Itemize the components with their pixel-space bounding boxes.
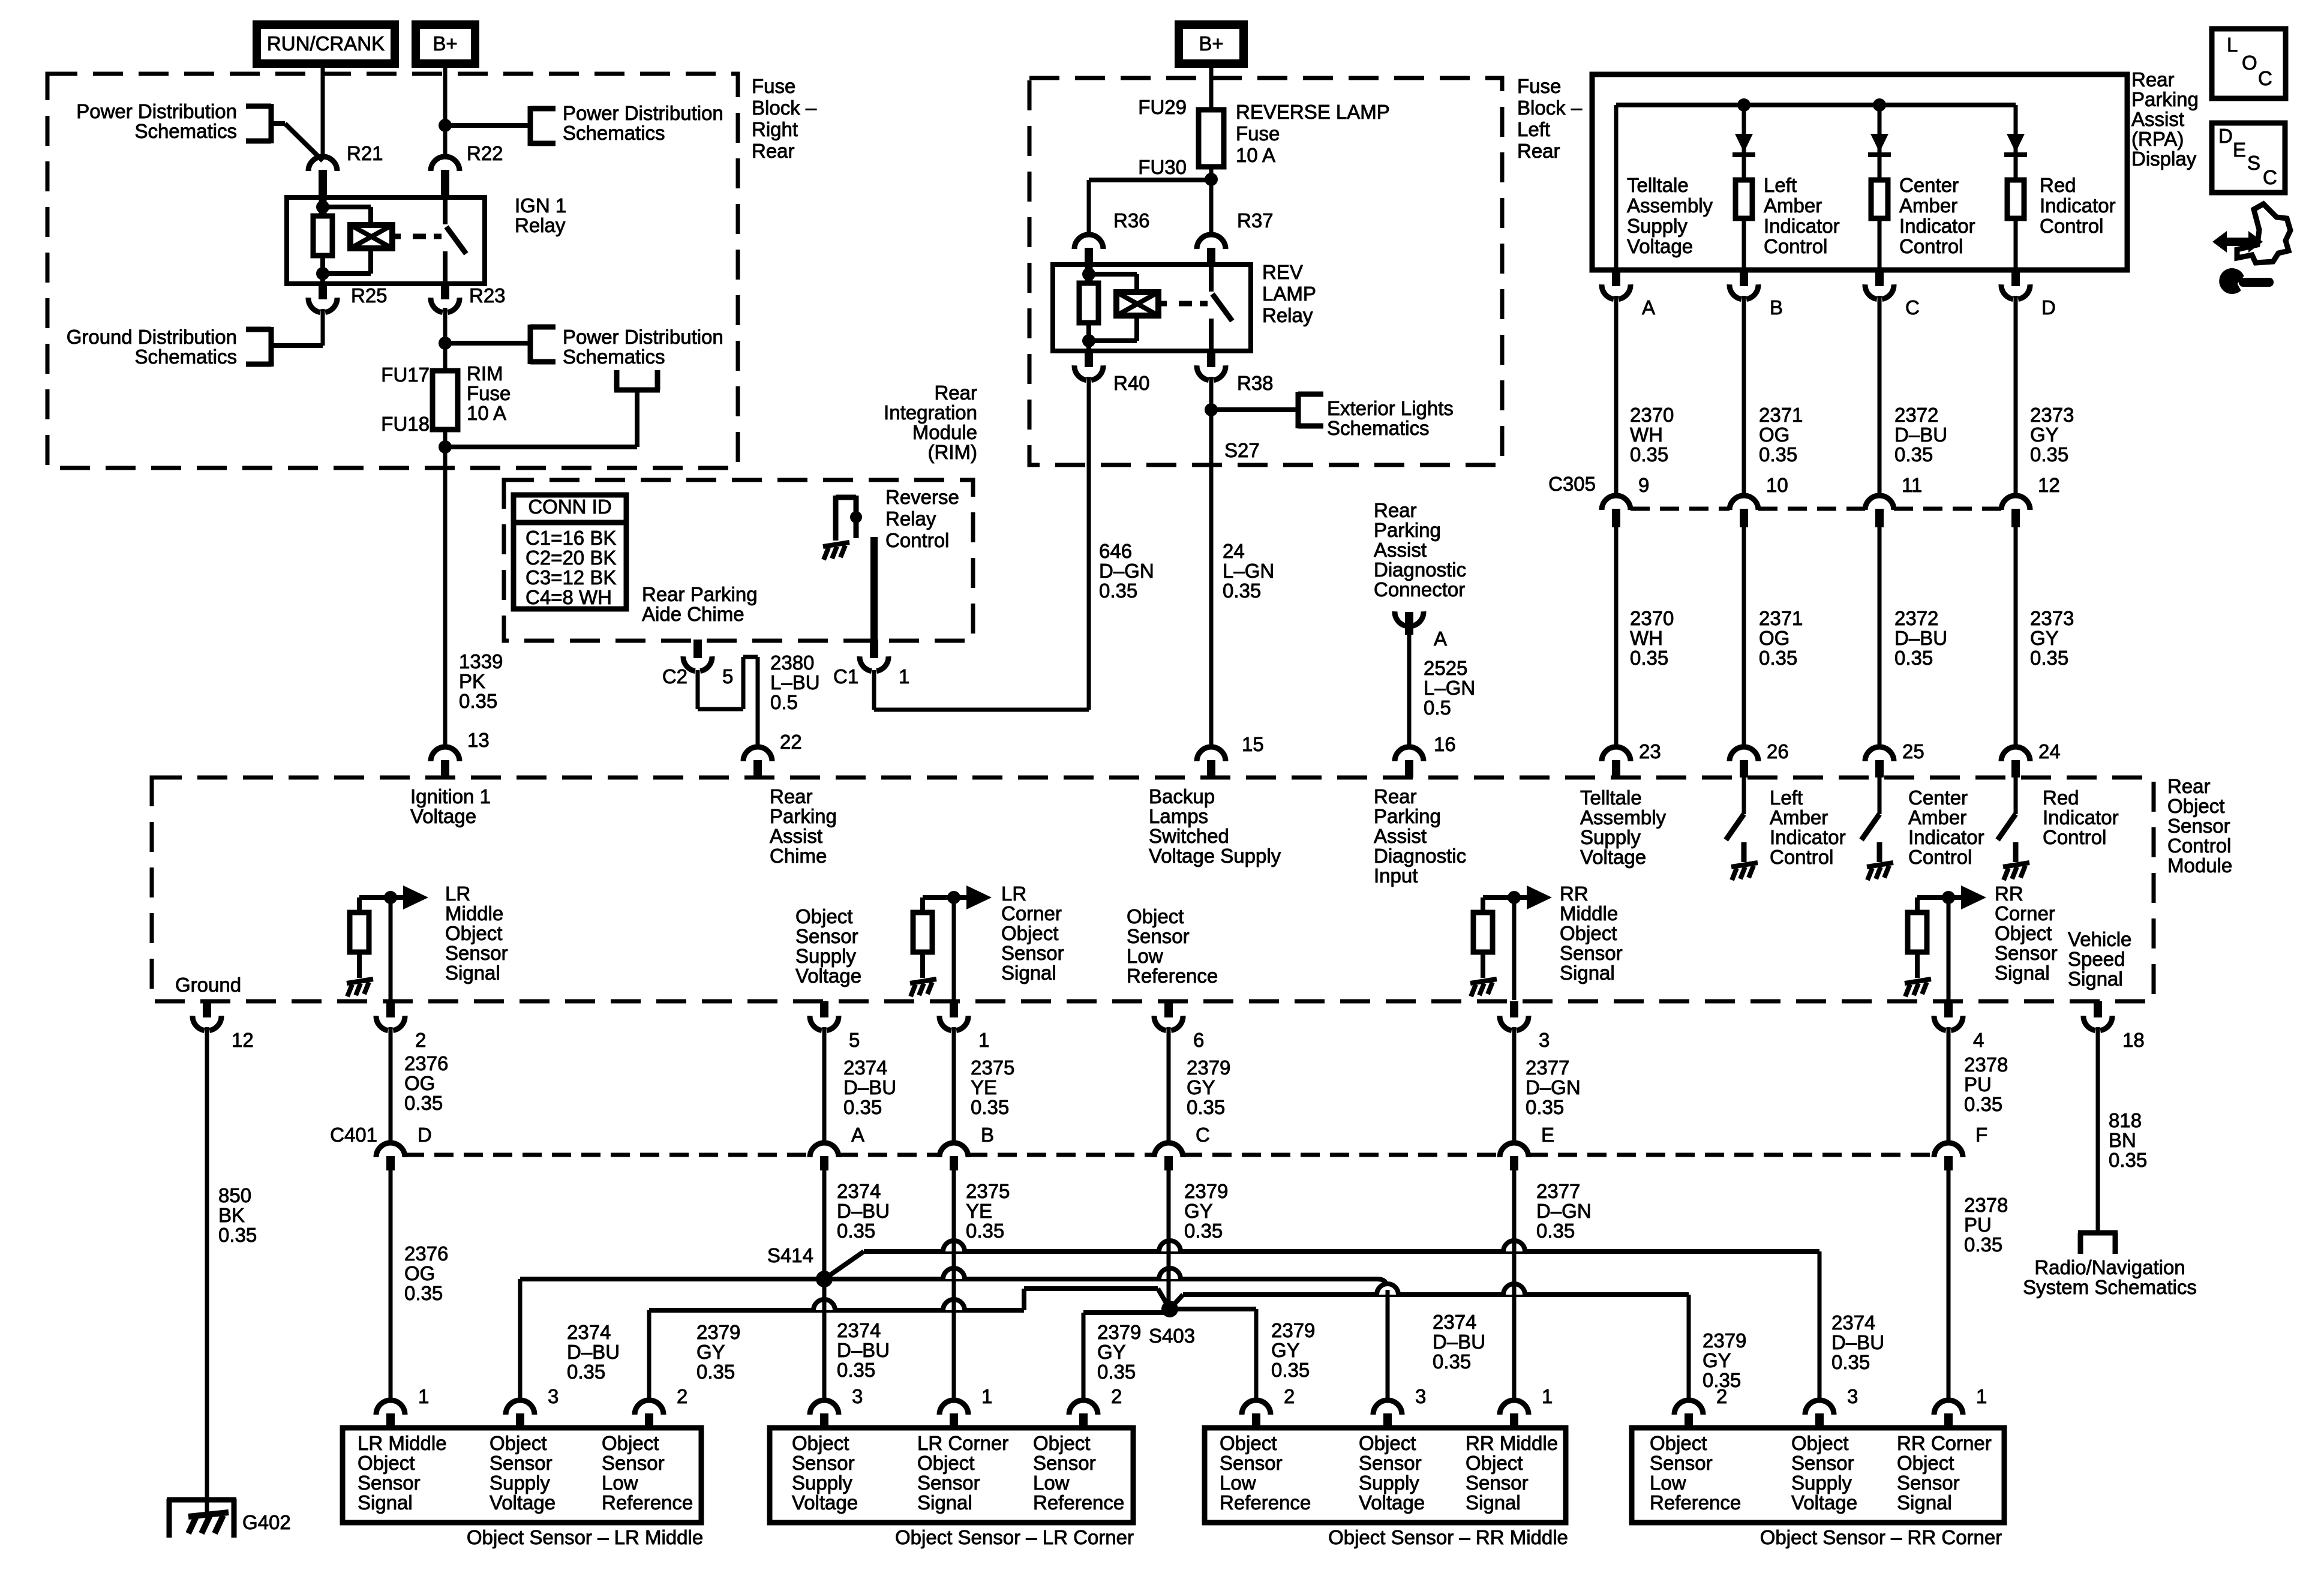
- svg-text:B: B: [1770, 296, 1783, 319]
- svg-text:R22: R22: [467, 142, 503, 164]
- svg-text:3: 3: [1847, 1385, 1858, 1407]
- svg-text:FU30: FU30: [1138, 156, 1187, 178]
- svg-text:1: 1: [1976, 1385, 1987, 1407]
- svg-text:Rear ParkingAide Chime: Rear ParkingAide Chime: [642, 583, 758, 625]
- svg-text:Ground: Ground: [175, 974, 241, 996]
- svg-text:C: C: [1196, 1124, 1210, 1146]
- svg-text:5: 5: [722, 665, 733, 688]
- svg-text:3: 3: [1539, 1029, 1550, 1051]
- svg-text:2: 2: [415, 1029, 426, 1051]
- svg-text:S403: S403: [1149, 1325, 1195, 1347]
- svg-text:26: 26: [1767, 740, 1789, 763]
- svg-text:25: 25: [1902, 740, 1924, 763]
- svg-text:R38: R38: [1237, 372, 1274, 394]
- svg-text:13: 13: [467, 729, 490, 751]
- svg-text:1: 1: [978, 1029, 989, 1051]
- svg-text:R40: R40: [1113, 372, 1150, 394]
- svg-text:R36: R36: [1113, 209, 1150, 232]
- svg-text:22: 22: [780, 731, 802, 753]
- svg-text:CONN ID: CONN ID: [528, 496, 611, 518]
- svg-text:10: 10: [1766, 474, 1788, 496]
- svg-text:ObjectSensorSupplyVoltage: ObjectSensorSupplyVoltage: [1791, 1432, 1857, 1514]
- svg-text:C2: C2: [662, 665, 687, 688]
- svg-text:16: 16: [1434, 733, 1456, 755]
- svg-text:5: 5: [849, 1029, 860, 1051]
- svg-text:ObjectSensorSupplyVoltage: ObjectSensorSupplyVoltage: [792, 1432, 858, 1514]
- svg-text:1: 1: [899, 665, 909, 688]
- svg-text:6: 6: [1193, 1029, 1204, 1051]
- svg-text:2: 2: [1716, 1385, 1727, 1407]
- svg-text:S414: S414: [767, 1244, 813, 1266]
- svg-text:15: 15: [1242, 733, 1264, 755]
- svg-text:9: 9: [1638, 474, 1649, 496]
- svg-text:L: L: [2227, 34, 2238, 56]
- svg-text:Object Sensor – LR Corner: Object Sensor – LR Corner: [895, 1526, 1134, 1548]
- svg-text:3: 3: [1415, 1385, 1426, 1407]
- svg-text:4: 4: [1973, 1029, 1984, 1051]
- svg-text:C: C: [2258, 67, 2272, 89]
- svg-text:Object Sensor – LR Middle: Object Sensor – LR Middle: [467, 1526, 703, 1548]
- svg-text:1: 1: [418, 1385, 429, 1407]
- svg-text:24: 24: [2038, 740, 2061, 763]
- svg-text:C: C: [1905, 296, 1920, 319]
- svg-text:C1=16 BKC2=20 BKC3=12 BKC4=8 W: C1=16 BKC2=20 BKC3=12 BKC4=8 WH: [526, 527, 616, 608]
- svg-text:D: D: [2218, 125, 2233, 147]
- svg-text:R37: R37: [1237, 209, 1274, 232]
- svg-text:G402: G402: [242, 1511, 291, 1533]
- svg-text:E: E: [1541, 1124, 1554, 1146]
- svg-text:R21: R21: [347, 142, 383, 164]
- svg-text:3: 3: [548, 1385, 559, 1407]
- svg-text:O: O: [2242, 52, 2257, 74]
- svg-text:S27: S27: [1224, 439, 1260, 461]
- svg-text:B+: B+: [1199, 32, 1223, 55]
- svg-text:1: 1: [1542, 1385, 1553, 1407]
- svg-text:B+: B+: [433, 32, 457, 55]
- svg-text:A: A: [851, 1124, 864, 1146]
- svg-text:1: 1: [981, 1385, 992, 1407]
- svg-text:Radio/NavigationSystem Schemat: Radio/NavigationSystem Schematics: [2023, 1256, 2197, 1298]
- svg-text:3: 3: [852, 1385, 863, 1407]
- svg-text:A: A: [1642, 296, 1655, 319]
- svg-text:A: A: [1434, 628, 1447, 650]
- svg-text:B: B: [981, 1124, 994, 1146]
- svg-text:11: 11: [1902, 474, 1922, 496]
- svg-text:S: S: [2247, 152, 2260, 174]
- svg-text:18: 18: [2122, 1029, 2145, 1051]
- svg-text:FU18: FU18: [381, 413, 430, 435]
- svg-text:12: 12: [232, 1029, 254, 1051]
- svg-text:FU29: FU29: [1138, 96, 1187, 118]
- svg-text:ObjectSensorSupplyVoltage: ObjectSensorSupplyVoltage: [795, 905, 861, 987]
- svg-text:2: 2: [677, 1385, 687, 1407]
- svg-text:VehicleSpeedSignal: VehicleSpeedSignal: [2068, 928, 2131, 990]
- svg-text:F: F: [1975, 1124, 1987, 1146]
- svg-text:23: 23: [1639, 740, 1661, 763]
- svg-text:C401: C401: [330, 1124, 377, 1146]
- svg-text:Object Sensor – RR Corner: Object Sensor – RR Corner: [1760, 1526, 2002, 1548]
- svg-text:ObjectSensorSupplyVoltage: ObjectSensorSupplyVoltage: [490, 1432, 556, 1514]
- svg-text:RUN/CRANK: RUN/CRANK: [267, 32, 385, 55]
- svg-text:FU17: FU17: [381, 364, 430, 386]
- svg-text:C1: C1: [833, 665, 858, 688]
- svg-text:C: C: [2263, 166, 2277, 188]
- svg-text:2: 2: [1284, 1385, 1295, 1407]
- svg-text:R25: R25: [351, 284, 388, 307]
- svg-text:E: E: [2233, 139, 2246, 161]
- svg-text:ObjectSensorSupplyVoltage: ObjectSensorSupplyVoltage: [1359, 1432, 1425, 1514]
- svg-text:2: 2: [1111, 1385, 1122, 1407]
- svg-text:D: D: [418, 1124, 432, 1146]
- svg-text:D: D: [2041, 296, 2056, 319]
- svg-text:Object Sensor – RR Middle: Object Sensor – RR Middle: [1328, 1526, 1568, 1548]
- svg-text:12: 12: [2038, 474, 2060, 496]
- svg-text:R23: R23: [469, 284, 506, 307]
- svg-text:IGN 1Relay: IGN 1Relay: [515, 194, 566, 236]
- svg-text:C305: C305: [1548, 473, 1596, 495]
